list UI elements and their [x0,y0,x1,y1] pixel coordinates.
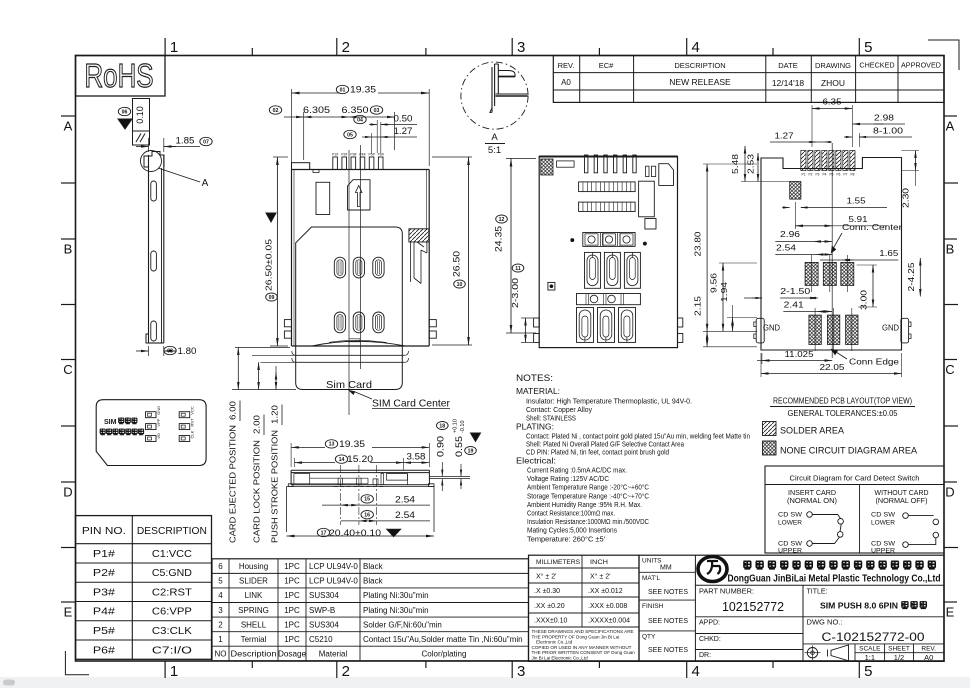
svg-text:1: 1 [170,663,178,680]
third angle projection symbol [807,648,817,658]
svg-text:E: E [64,605,73,620]
svg-text:I/O: I/O [156,433,161,438]
svg-text:SHELL: SHELL [241,620,267,629]
dim 15.20 balloon 14 [294,458,296,467]
svg-text:+0.10: +0.10 [453,419,459,433]
svg-text:P5: P5 [829,173,833,177]
svg-text:19.35: 19.35 [339,439,365,450]
svg-text:P4#: P4# [93,606,115,618]
svg-text:B: B [946,242,955,257]
svg-text:2.54: 2.54 [776,243,796,253]
svg-text:102152772: 102152772 [722,600,784,614]
svg-text:C6:VPP: C6:VPP [152,606,192,618]
svg-text:P2: P2 [808,173,812,177]
top view insertion arrow [355,186,362,207]
top view sim card outline [296,227,403,390]
svg-text:NEW RELEASE: NEW RELEASE [669,77,731,87]
bottom view ribbed bar 3 [577,294,641,305]
svg-text:8-1.00: 8-1.00 [873,126,903,136]
svg-text:MM: MM [660,565,672,572]
pcb dim 8-1.00 [844,136,852,138]
svg-text:Dosage: Dosage [278,650,307,659]
svg-text:RST: RST [190,418,195,427]
svg-text:E: E [946,605,955,620]
none circuit area legend [763,441,777,455]
svg-text:GND: GND [763,323,780,333]
svg-text:ZHOU: ZHOU [821,78,845,88]
svg-text:C5:GND: C5:GND [152,567,192,579]
svg-text:(NORMAL ON): (NORMAL ON) [787,498,837,505]
pcb dim 11.025 [761,353,763,364]
bottom view cd box with dot [548,282,555,290]
svg-text:B: B [64,242,73,257]
bottom view small pads [646,166,649,176]
svg-text:16: 16 [364,513,370,519]
side view body [148,155,150,343]
bottom view small square below [645,219,656,230]
svg-text:DR:: DR: [699,652,711,659]
svg-text:P1#: P1# [93,548,115,560]
profile view tail lines [429,475,470,477]
svg-text:2-1.50: 2-1.50 [780,286,810,296]
svg-text:15: 15 [364,497,370,503]
svg-text:1:1: 1:1 [865,653,875,662]
svg-text:CHKD:: CHKD: [699,636,721,643]
svg-text:X° ± 2': X° ± 2' [590,573,610,581]
svg-text:26.50: 26.50 [452,251,463,277]
svg-text:12: 12 [499,217,505,223]
svg-text:1PC: 1PC [284,577,300,586]
svg-text:LINK: LINK [245,591,263,600]
svg-text:1PC: 1PC [284,591,300,600]
svg-text:Current Rating :0.5mA AC/DC: Current Rating :0.5mA AC/DC max. [527,468,627,475]
detail A profile [492,64,498,112]
switch closed contacts [838,519,844,525]
scale sheet rev cells [803,643,944,645]
svg-text:1.85: 1.85 [176,136,195,146]
svg-text:C3:CLK: C3:CLK [152,625,192,637]
pcb dim 9.56 vertical [719,262,757,264]
dwg no cell [803,616,944,618]
svg-text:P3#: P3# [93,586,115,598]
svg-text:17: 17 [321,530,327,536]
svg-text:LCP UL94V-0: LCP UL94V-0 [309,562,358,571]
svg-text:SOLDER AREA: SOLDER AREA [780,426,845,437]
pcb dim 5.91 [795,225,832,227]
svg-text:0.55: 0.55 [454,436,465,457]
svg-text:LOWER: LOWER [778,520,802,527]
svg-text:LOWER: LOWER [871,520,895,527]
svg-text:Sim Card: Sim Card [326,379,372,391]
switch open contacts [933,519,939,525]
pcb center line [831,143,833,358]
side view detail-A leader [158,168,200,182]
svg-text:Electrical:: Electrical: [516,456,556,466]
bottom view top small rect [557,161,575,167]
profile view body [291,470,429,484]
svg-text:Material: Material [319,650,348,659]
revision table [553,56,944,103]
svg-text:CHECKED: CHECKED [859,61,894,70]
svg-text:1: 1 [218,635,223,644]
svg-text:11.025: 11.025 [785,349,814,359]
svg-text:Insulator: High Temperature: Insulator: High Temperature Thermoplasti… [526,399,692,406]
svg-text:07: 07 [203,139,209,145]
svg-text:GND: GND [882,323,899,333]
svg-text:A0: A0 [924,653,933,662]
svg-text:CARD LOCK POSITION: CARD LOCK POSITION [253,440,262,543]
appd chkd dr cells [695,633,803,635]
svg-text:DESCRIPTION: DESCRIPTION [137,526,207,537]
svg-text:Conn Edge: Conn Edge [849,357,899,367]
svg-text:2: 2 [342,663,350,680]
svg-text:LCP UL94V-0: LCP UL94V-0 [309,577,358,586]
svg-text:.XX ±0.012: .XX ±0.012 [588,588,623,595]
svg-text:5: 5 [218,577,223,586]
svg-text:Conn. Center: Conn. Center [842,222,902,232]
svg-text:4: 4 [692,39,700,56]
svg-text:19.35: 19.35 [350,85,376,96]
svg-text:NOTES:: NOTES: [516,373,553,384]
svg-text:Contact: Plated Ni , contact: Contact: Plated Ni , contact point gold … [526,434,750,441]
svg-text:08: 08 [167,348,173,354]
svg-text:0.10: 0.10 [135,106,145,124]
svg-text:PIN NO.: PIN NO. [82,526,126,537]
svg-text:24.35: 24.35 [494,226,505,252]
trim mark bottom-left [65,651,89,675]
svg-text:UPPER: UPPER [778,547,802,554]
svg-text:A: A [491,132,498,143]
dim 2.54 balloon 16 [359,520,377,522]
svg-text:GENERAL TOLERANCES:±0.05: GENERAL TOLERANCES:±0.05 [788,408,898,418]
svg-text:23.80: 23.80 [693,231,703,256]
top view card arrow slot [348,180,371,210]
pcb dim 1.55 [782,207,790,209]
trim mark top-right [928,40,959,70]
svg-text:DATE: DATE [778,61,797,70]
svg-text:Termial: Termial [241,635,267,644]
svg-text:Description: Description [231,650,277,659]
svg-text:SLIDER: SLIDER [239,577,268,586]
svg-text:DESCRIPTION: DESCRIPTION [674,61,725,70]
profile view center lines [339,465,341,525]
svg-text:6.35: 6.35 [823,97,842,107]
svg-text:1PC: 1PC [284,562,300,571]
svg-text:APPROVED: APPROVED [901,61,941,70]
svg-text:P8: P8 [850,173,854,177]
svg-text:FINISH: FINISH [642,603,664,610]
svg-text:C7:I/O: C7:I/O [152,644,192,656]
svg-text:P5#: P5# [369,153,375,157]
RoHS label box [76,56,166,97]
svg-text:Ambient Temperature Range :: Ambient Temperature Range :-20°C~+60°C [527,484,649,492]
svg-text:15.20: 15.20 [347,454,373,465]
svg-text:5: 5 [864,39,872,56]
svg-text:MAT'L: MAT'L [642,575,660,582]
svg-text:C5210: C5210 [309,635,333,644]
svg-text:0.90: 0.90 [435,436,446,457]
svg-text:P6: P6 [836,173,840,177]
svg-text:Voltage Rating :125V AC/DC: Voltage Rating :125V AC/DC [527,476,609,483]
side view detail-A circle [141,151,162,172]
side view slots [151,181,157,201]
svg-text:3.58: 3.58 [407,452,426,462]
dim 6.305 6.350 balloons 02 03 [269,106,281,114]
svg-text:1.55: 1.55 [847,196,866,206]
dim 1.85 balloon 07 [148,138,150,152]
svg-text:3: 3 [517,663,525,680]
title block frame [639,555,944,661]
dim 26.50 balloon 10 right [432,156,472,158]
svg-text:Black: Black [363,562,384,571]
solder area legend [763,422,777,436]
svg-text:.XXX±0.10: .XXX±0.10 [534,618,568,625]
pcb dim 23.80 vertical [703,163,757,165]
svg-text:VPP: VPP [156,418,161,426]
dim card ejected position lines [235,347,290,349]
svg-text:13: 13 [329,442,335,448]
svg-text:1.20: 1.20 [271,404,280,424]
svg-text:NO: NO [215,650,227,659]
svg-text:1.65: 1.65 [879,248,898,258]
svg-text:Ambient Humidity Range :95%: Ambient Humidity Range :95% R.H. Max. [527,502,642,509]
top view left slot [316,182,330,214]
svg-text:5:1: 5:1 [488,145,501,156]
svg-text:C2:RST: C2:RST [152,586,193,598]
pcb dim 22.05 [901,353,903,377]
svg-text:CD SW: CD SW [778,512,803,519]
svg-text:EC#: EC# [599,61,614,70]
pcb dim 3.00 vertical [872,265,874,307]
svg-text:SUS304: SUS304 [309,591,339,600]
svg-text:A: A [202,178,209,189]
svg-text:COPIED OR USED IN ANY MANNER W: COPIED OR USED IN ANY MANNER WITHOUT [532,645,632,650]
svg-text:RoHS: RoHS [85,57,154,94]
bottom view side tabs [534,318,540,327]
top view shell bottom arc [312,341,405,346]
svg-text:DongGuan JinBiLai Metal Pla: DongGuan JinBiLai Metal Plastic Technolo… [728,573,941,585]
svg-text:09: 09 [269,295,275,301]
side view parallelism feature frame [133,99,150,146]
svg-text:SPRING: SPRING [238,606,269,615]
svg-text:DRAWING: DRAWING [815,61,851,70]
ruler mid ticks bottom [251,661,253,668]
top view shell inner lines [293,170,295,347]
svg-text:12/14'18: 12/14'18 [772,78,805,88]
svg-text:PART NUMBER:: PART NUMBER: [699,589,754,596]
bom table [212,559,529,661]
svg-text:2.15: 2.15 [693,296,703,316]
pin table [76,516,212,660]
svg-text:P3#: P3# [350,153,356,157]
svg-text:APPD:: APPD: [699,620,720,627]
pcb gnd pads [756,318,764,343]
ruler mid ticks top [251,48,253,56]
svg-text:THE PRIOR WRITTEN CONSENT OF D: THE PRIOR WRITTEN CONSENT OF Dong Guan [532,650,636,655]
svg-text:A0: A0 [561,78,571,87]
svg-text:.X ±0.30: .X ±0.30 [534,588,560,595]
svg-text:P6#: P6# [93,644,115,656]
top view side tabs [284,320,291,327]
svg-text:2.00: 2.00 [253,414,262,434]
svg-text:PUSH STROKE POSITION: PUSH STROKE POSITION [271,430,280,543]
svg-text:RECOMMENDED PCB LAYOUT(TOP: RECOMMENDED PCB LAYOUT(TOP VIEW) [773,396,912,406]
pcb bottom pads [809,315,821,344]
svg-text:SWP-B: SWP-B [309,606,335,615]
svg-text:INCH: INCH [590,559,608,566]
svg-text:A: A [64,119,73,134]
svg-text:SUS304: SUS304 [309,620,339,629]
svg-text:1PC: 1PC [284,635,300,644]
company band [695,584,944,586]
svg-text:1PC: 1PC [284,606,300,615]
svg-text:P7: P7 [843,173,847,177]
svg-text:SEE NOTES: SEE NOTES [648,618,688,625]
svg-text:Temperature: 260°C ±5': Temperature: 260°C ±5' [527,535,605,543]
svg-text:2: 2 [342,39,350,56]
svg-text:P3: P3 [815,173,819,177]
detail A circle [461,62,528,129]
svg-text:CD SW: CD SW [871,512,896,519]
bottom view alignment dots [571,239,574,242]
svg-text:3: 3 [218,606,223,615]
dim 0.90 balloon 18 [437,422,449,430]
svg-text:P1#: P1# [332,153,338,157]
svg-text:REV.: REV. [558,61,575,70]
svg-text:WITHOUT CARD: WITHOUT CARD [875,490,929,497]
bottom scrollbar strip [0,677,970,688]
svg-text:THESE DRAWINGS AND SPECIFICATI: THESE DRAWINGS AND SPECIFICATIONS ARE [532,629,634,634]
bottom view top pins comb [585,155,588,173]
svg-text:1: 1 [170,39,178,56]
pcb dim 2.15 vertical [703,330,757,332]
profile view dashed card line [334,485,384,487]
svg-text:Insulation Resistance:1000MΩ: Insulation Resistance:1000MΩ min./500VDC [527,519,649,526]
svg-text:2.54: 2.54 [395,510,415,521]
svg-text:UNITS: UNITS [642,558,662,565]
bottom view tall rect [639,181,655,217]
svg-text:SIM: SIM [104,419,117,426]
svg-text:SEE NOTES: SEE NOTES [648,647,688,654]
bottom view lower contacts [577,308,594,343]
svg-text:2.30: 2.30 [901,188,911,208]
dim 0.50 balloon 04 [354,115,366,123]
bottom view body outline [539,157,677,348]
svg-text:QTY: QTY [642,634,656,641]
side view bottom foot [146,334,149,343]
bottom view switch row [583,233,635,247]
svg-text:TITLE:: TITLE: [807,589,828,596]
svg-text:2.96: 2.96 [780,229,800,239]
svg-text:Color/plating: Color/plating [422,650,467,659]
svg-text:SEE NOTES: SEE NOTES [648,589,688,596]
pcb dim 2.30 vertical [902,150,920,152]
dim 19.35 balloon 01 [291,89,293,166]
svg-text:05: 05 [347,132,353,138]
svg-text:P4#: P4# [359,153,365,157]
svg-text:Jin Bi Lai Electronic Co.,Ltd: Jin Bi Lai Electronic Co.,Ltd [532,655,589,660]
part number cell [695,616,803,618]
profile view feet [288,484,434,487]
tolerance table [529,555,640,661]
svg-text:0.50: 0.50 [394,114,413,124]
svg-text:11: 11 [515,266,521,272]
svg-text:Mating Cycles:5,000 Insertio: Mating Cycles:5,000 Insertions [527,528,617,535]
company logo [698,557,727,582]
profile view inner details [294,474,310,484]
bottom view ribbed bar 2 [579,202,636,211]
sim card icon chinese label line2 [100,429,106,435]
svg-text:1.27: 1.27 [775,131,794,141]
drawing frame border [76,56,945,662]
svg-text:Black: Black [363,577,384,586]
svg-text:.XXXX±0.004: .XXXX±0.004 [588,618,630,625]
side view datum triangle [118,119,132,129]
svg-text:P4: P4 [822,173,826,177]
sim card icon outline [96,400,206,466]
svg-text:C: C [945,362,954,377]
pcb dim 2.98 [852,109,884,111]
top view center lines [348,150,350,415]
svg-text:SCALE: SCALE [859,646,881,653]
svg-text:A: A [946,119,955,134]
svg-text:P2#: P2# [93,567,115,579]
top view contact slots [334,257,345,278]
svg-text:REV.: REV. [921,646,936,653]
svg-text:6.350: 6.350 [342,105,369,116]
dim 2.54 balloon 15 [340,504,359,506]
profile view lower box [286,487,288,533]
svg-text:C-102152772-00: C-102152772-00 [822,630,925,644]
svg-text:1.94: 1.94 [719,282,729,302]
top view latch mechanism [409,229,429,242]
bottom view hatched corner block [541,159,553,175]
top view shell outline [292,170,430,347]
svg-text:Contact Resistance:100mΩ max: Contact Resistance:100mΩ max. [527,511,615,518]
svg-text:C1:VCC: C1:VCC [152,548,192,560]
svg-text:22.05: 22.05 [820,362,845,372]
pcb top pads 8-1.00 [801,151,806,171]
svg-text:D: D [945,485,954,500]
svg-text:9.56: 9.56 [709,273,719,293]
company chinese name [744,561,752,569]
svg-text:X° ± 2': X° ± 2' [536,573,556,581]
svg-text:01: 01 [340,87,346,93]
svg-text:2-4.25: 2-4.25 [906,262,916,291]
pcb middle pads [805,262,818,285]
svg-text:Plating Ni:30u"min: Plating Ni:30u"min [363,606,429,615]
svg-text:14: 14 [339,457,345,463]
svg-text:(NORMAL OFF): (NORMAL OFF) [876,498,928,505]
svg-text:20.40±0.10: 20.40±0.10 [329,528,381,539]
top view card position lines [296,354,404,356]
svg-text:Solder G/F,Ni:60u"min: Solder G/F,Ni:60u"min [363,620,442,629]
ruler numbers bottom [164,661,166,678]
svg-text:.XX ±0.20: .XX ±0.20 [534,603,565,610]
svg-text:6.00: 6.00 [229,400,238,420]
dim 26.50+-0.05 balloon 09 left [273,156,288,158]
svg-text:.XXX ±0.008: .XXX ±0.008 [588,603,627,610]
svg-text:Contact 15u"Au,Solder matte: Contact 15u"Au,Solder matte Tin ,Ni:60u"… [363,635,523,644]
svg-text:06: 06 [122,109,128,115]
bottom view right bevel polygon [659,164,674,186]
svg-text:PLATING:: PLATING: [516,422,554,432]
svg-text:C: C [63,362,72,377]
svg-text:GND: GND [156,406,161,415]
circuit diagram box [765,466,944,553]
dim 24.35 balloon 12 [506,158,536,160]
svg-text:04: 04 [357,117,363,123]
